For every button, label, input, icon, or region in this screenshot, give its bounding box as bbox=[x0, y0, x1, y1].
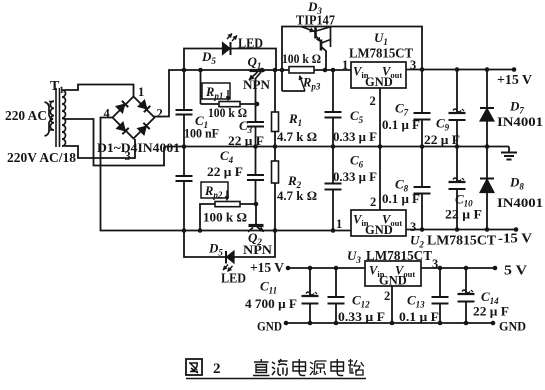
svg-text:2: 2 bbox=[370, 94, 376, 108]
svg-text:220 AC: 220 AC bbox=[5, 108, 47, 123]
svg-text:4.7 k Ω: 4.7 k Ω bbox=[277, 188, 317, 203]
svg-text:0.33 μ F: 0.33 μ F bbox=[333, 170, 377, 184]
svg-text:NPN: NPN bbox=[243, 242, 273, 257]
svg-text:C8: C8 bbox=[395, 177, 409, 194]
svg-text:LED: LED bbox=[238, 36, 263, 51]
svg-text:22 μ F: 22 μ F bbox=[473, 305, 509, 319]
svg-text:R1: R1 bbox=[288, 111, 302, 128]
svg-text:100 nF: 100 nF bbox=[184, 126, 219, 141]
svg-text:GND: GND bbox=[365, 75, 393, 89]
svg-text:D5: D5 bbox=[201, 49, 216, 66]
svg-text:LED: LED bbox=[221, 271, 246, 286]
svg-text:C10: C10 bbox=[455, 192, 473, 209]
svg-text:2: 2 bbox=[384, 289, 390, 303]
svg-text:0.1 μ F: 0.1 μ F bbox=[382, 118, 420, 132]
svg-text:4 700 μ F: 4 700 μ F bbox=[245, 297, 297, 311]
svg-text:0.1 μ F: 0.1 μ F bbox=[399, 310, 439, 324]
svg-text:22 μ F: 22 μ F bbox=[445, 208, 482, 222]
svg-text:C9: C9 bbox=[436, 116, 450, 133]
svg-text:GND: GND bbox=[379, 274, 407, 288]
svg-text:3: 3 bbox=[410, 58, 416, 72]
svg-text:22 μ F: 22 μ F bbox=[424, 133, 460, 147]
svg-text:U3: U3 bbox=[347, 248, 361, 265]
svg-text:D8: D8 bbox=[509, 175, 524, 192]
svg-text:Rp1: Rp1 bbox=[205, 85, 223, 101]
svg-text:C4: C4 bbox=[220, 148, 234, 165]
svg-text:D7: D7 bbox=[509, 99, 524, 116]
svg-text:1: 1 bbox=[342, 58, 348, 72]
svg-text:GND: GND bbox=[365, 223, 393, 237]
svg-text:D1~D4IN4001: D1~D4IN4001 bbox=[97, 140, 180, 155]
svg-text:2: 2 bbox=[157, 107, 163, 121]
svg-text:C7: C7 bbox=[395, 101, 409, 118]
svg-text:C5: C5 bbox=[350, 108, 364, 125]
svg-text:22 μ F: 22 μ F bbox=[207, 165, 243, 179]
svg-text:2: 2 bbox=[213, 361, 221, 377]
svg-text:T1: T1 bbox=[50, 79, 64, 95]
svg-text:4.7 k Ω: 4.7 k Ω bbox=[277, 129, 317, 144]
svg-text:TIP147: TIP147 bbox=[296, 13, 335, 28]
svg-text:C3: C3 bbox=[239, 118, 253, 135]
svg-text:5 V: 5 V bbox=[504, 263, 527, 278]
svg-text:+15 V: +15 V bbox=[250, 260, 284, 275]
svg-text:LM7815CT: LM7815CT bbox=[427, 233, 496, 248]
svg-text:0.33 μ F: 0.33 μ F bbox=[338, 310, 385, 324]
svg-text:3: 3 bbox=[125, 149, 131, 163]
svg-text:U1: U1 bbox=[374, 30, 388, 47]
svg-text:+15 V: +15 V bbox=[497, 72, 532, 87]
svg-text:0.1 μ F: 0.1 μ F bbox=[382, 192, 420, 206]
svg-text:0.33 μ F: 0.33 μ F bbox=[333, 130, 377, 144]
svg-text:C12: C12 bbox=[352, 293, 370, 310]
svg-text:22 μ F: 22 μ F bbox=[228, 134, 264, 148]
svg-text:NPN: NPN bbox=[243, 77, 271, 92]
svg-text:IN4001: IN4001 bbox=[497, 195, 543, 210]
svg-text:LM7815CT: LM7815CT bbox=[349, 46, 413, 61]
svg-text:GND: GND bbox=[257, 319, 282, 334]
svg-text:Rp2: Rp2 bbox=[204, 184, 223, 200]
svg-text:IN4001: IN4001 bbox=[497, 114, 543, 129]
svg-text:3: 3 bbox=[432, 257, 438, 271]
svg-text:4: 4 bbox=[104, 107, 111, 121]
svg-text:-15 V: -15 V bbox=[498, 231, 532, 246]
svg-text:100 k Ω: 100 k Ω bbox=[282, 51, 321, 66]
svg-text:1: 1 bbox=[138, 85, 144, 99]
svg-text:100 k Ω: 100 k Ω bbox=[203, 210, 247, 225]
svg-text:C14: C14 bbox=[481, 289, 499, 306]
svg-text:220V AC/18: 220V AC/18 bbox=[7, 150, 76, 165]
svg-text:GND: GND bbox=[499, 319, 526, 334]
svg-text:C11: C11 bbox=[260, 279, 277, 296]
svg-text:Q1: Q1 bbox=[248, 54, 262, 71]
svg-text:Rp3: Rp3 bbox=[302, 76, 321, 92]
svg-text:C6: C6 bbox=[350, 153, 364, 170]
svg-text:D5: D5 bbox=[208, 241, 223, 258]
svg-text:C13: C13 bbox=[407, 293, 425, 310]
svg-text:U2: U2 bbox=[410, 233, 424, 250]
svg-text:LM7815CT: LM7815CT bbox=[366, 248, 432, 263]
svg-text:1: 1 bbox=[336, 217, 342, 231]
svg-text:2: 2 bbox=[370, 195, 376, 209]
